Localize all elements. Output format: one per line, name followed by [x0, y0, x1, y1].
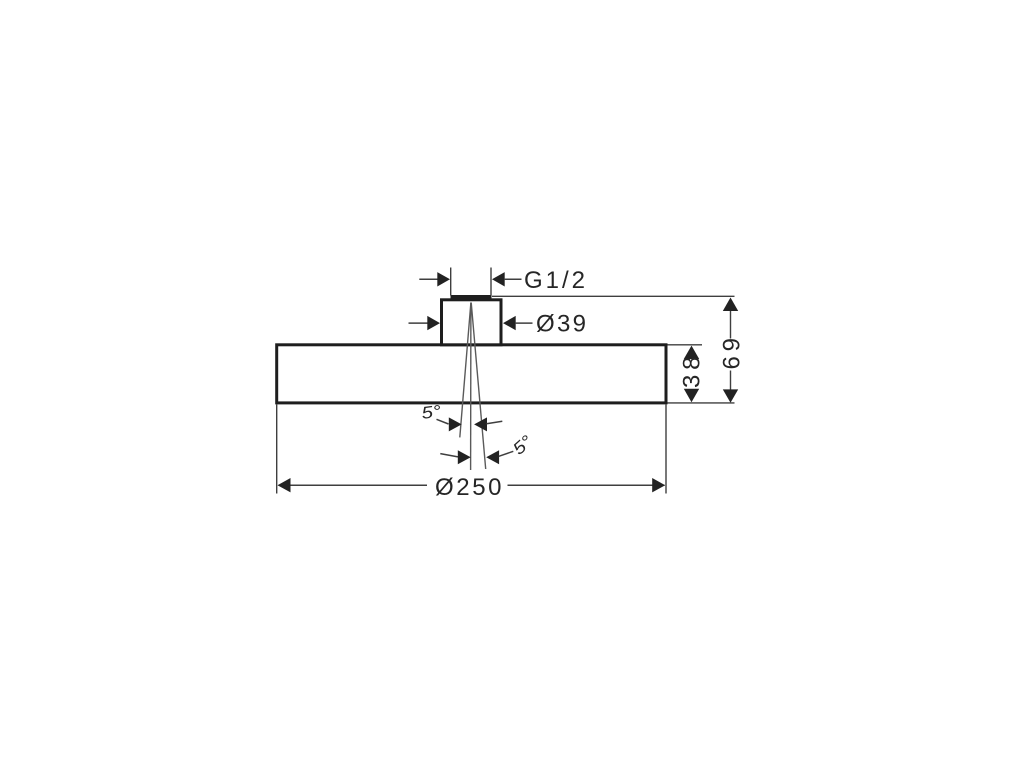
- Ø39 right arrowhead: [503, 316, 516, 330]
- svg-text:69: 69: [718, 333, 745, 369]
- spray axis line center: [470, 303, 472, 471]
- 69 dimension line lower segment: [730, 371, 732, 391]
- shower plate (disc, side view): [277, 345, 666, 403]
- Ø39 left arrow tail: [409, 322, 429, 324]
- Ø250 extension line left: [276, 405, 278, 494]
- G1/2 extension line right: [490, 268, 492, 296]
- 38 top extension line: [668, 344, 703, 346]
- upper 5° right arrowhead: [474, 417, 487, 431]
- G1/2 right arrowhead: [492, 272, 505, 286]
- 38 top arrowhead (up): [684, 346, 699, 359]
- G1/2 left arrowhead: [437, 272, 450, 286]
- Ø250 dimension line right segment: [508, 484, 665, 486]
- upper 5° right tail: [487, 421, 503, 424]
- Ø250 right arrowhead: [652, 478, 665, 492]
- connector block: [442, 300, 502, 345]
- svg-text:Ø39: Ø39: [536, 311, 588, 338]
- svg-text:Ø250: Ø250: [435, 474, 504, 501]
- extension line from thread top to 69 dimension: [492, 295, 735, 297]
- Ø250 dimension line left segment: [279, 484, 428, 486]
- 38 bottom arrowhead (down): [684, 389, 699, 402]
- 69 dimension line upper segment: [730, 310, 732, 339]
- lower 5° left arrowhead: [458, 450, 471, 464]
- G1/2 extension line left: [450, 268, 452, 296]
- lower 5° left tail: [440, 454, 458, 457]
- bottom extension line (disc bottom to 69 dim): [668, 402, 735, 404]
- upper 5° leader line: [437, 419, 449, 424]
- lower 5° right arrowhead: [486, 450, 499, 464]
- upper 5° left arrowhead: [449, 417, 462, 431]
- lower 5° right tail: [499, 451, 514, 456]
- 69 top arrowhead (up): [723, 298, 738, 312]
- spray angle line right: [471, 303, 486, 470]
- Ø39 left arrowhead: [427, 316, 440, 330]
- spray angle line left: [460, 303, 471, 438]
- Ø250 extension line right: [665, 405, 667, 494]
- Ø39 right arrow tail: [515, 322, 533, 324]
- G1/2 right arrow tail: [504, 278, 522, 280]
- thread stub G1/2 (filled): [451, 295, 492, 301]
- G1/2 left arrow tail: [419, 278, 438, 280]
- svg-text:G1/2: G1/2: [524, 267, 588, 294]
- svg-text:5°: 5°: [420, 402, 442, 423]
- Ø250 left arrowhead: [278, 478, 291, 492]
- 69 bottom arrowhead (down): [723, 389, 738, 402]
- svg-text:38: 38: [679, 352, 706, 388]
